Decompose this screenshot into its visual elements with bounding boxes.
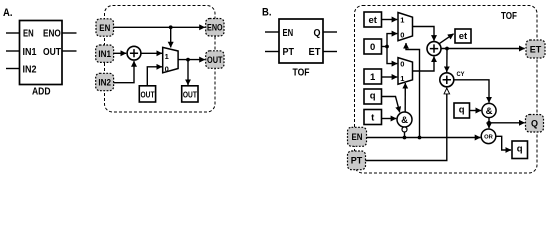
- junction EN/AND1: [403, 136, 407, 140]
- store box q bottom: [512, 141, 528, 159]
- mux1: [398, 13, 413, 41]
- OR circle: [481, 129, 496, 144]
- svg-text:PT: PT: [351, 156, 363, 167]
- svg-text:&: &: [486, 106, 493, 117]
- wire mux1 out to adder1 top: [413, 27, 435, 41]
- svg-text:ET: ET: [530, 44, 542, 55]
- wire AND1 out up to mux2 select: [404, 83, 406, 112]
- wire 0 down to mux2 input 0: [387, 47, 397, 64]
- wire q to AND2: [470, 110, 482, 112]
- dashed container box B: [355, 6, 538, 174]
- store box et right: [455, 29, 471, 43]
- wire t to AND1: [382, 118, 397, 120]
- wire stub OUT: [62, 50, 77, 52]
- wire IN2 to adder: [114, 61, 134, 83]
- svg-text:0: 0: [370, 42, 375, 53]
- node EN (input box B): [348, 127, 367, 146]
- svg-text:IN2: IN2: [98, 78, 111, 89]
- wire stub IN2: [6, 68, 20, 70]
- wire et to mux1 input 1: [382, 19, 398, 21]
- svg-text:Q: Q: [531, 119, 538, 130]
- svg-text:OR: OR: [484, 135, 494, 141]
- wire AND2 out down to OR: [488, 118, 490, 129]
- var box t left: [364, 110, 382, 125]
- svg-text:0: 0: [400, 31, 404, 40]
- dashed container box A: [105, 6, 216, 113]
- svg-text:&: &: [401, 115, 408, 126]
- node PT (input box B): [348, 151, 366, 170]
- svg-text:ET: ET: [309, 47, 321, 58]
- svg-text:CY: CY: [457, 72, 465, 78]
- junction EN/mux1 select: [418, 136, 422, 140]
- wire stub EN: [6, 32, 20, 34]
- svg-text:q: q: [517, 144, 523, 155]
- svg-text:PT: PT: [283, 47, 295, 58]
- adder2 circle: [440, 73, 454, 87]
- wire select to mux A: [170, 27, 172, 47]
- svg-text:B.: B.: [262, 7, 272, 19]
- wire q to AND1: [382, 97, 400, 113]
- node Q (output box): [526, 115, 544, 133]
- const box 0: [364, 39, 382, 54]
- svg-text:0: 0: [400, 60, 404, 69]
- svg-text:OUT: OUT: [183, 90, 197, 99]
- wire 0 to junction: [382, 46, 388, 48]
- node ENO (output box): [206, 19, 224, 37]
- mux2: [398, 58, 413, 85]
- var box q middle: [454, 103, 470, 118]
- wire stub ENO: [62, 32, 77, 34]
- AND1 inversion bubble: [402, 127, 407, 132]
- svg-text:IN1: IN1: [98, 49, 111, 60]
- svg-text:ENO: ENO: [207, 23, 223, 34]
- junction on mux out wire: [186, 58, 190, 62]
- wire stub ET: [323, 51, 337, 53]
- wire adder to mux 1 input: [141, 52, 162, 54]
- wire adder2 out to AND2 top: [454, 80, 489, 103]
- mux A: [163, 47, 178, 73]
- wire stub IN1: [6, 50, 20, 52]
- svg-text:IN2: IN2: [23, 64, 37, 75]
- svg-text:1: 1: [400, 15, 404, 24]
- svg-text:OUT: OUT: [207, 55, 223, 66]
- svg-text:EN: EN: [352, 132, 363, 143]
- svg-text:ENO: ENO: [43, 29, 61, 40]
- svg-text:et: et: [368, 15, 377, 26]
- node IN2 (input box): [96, 73, 114, 90]
- svg-text:TOF: TOF: [501, 11, 517, 22]
- wire junction down to adder2: [446, 49, 448, 73]
- svg-text:1: 1: [165, 52, 169, 61]
- node IN1 (input box): [96, 45, 114, 62]
- wire stub Q: [323, 31, 337, 33]
- svg-text:Q: Q: [314, 28, 321, 39]
- svg-text:1: 1: [400, 74, 404, 83]
- storage box OUT right: [182, 86, 198, 102]
- wire stub EN: [265, 31, 279, 33]
- node OUT (output box): [206, 51, 224, 69]
- junction of 0 wire: [385, 45, 389, 49]
- svg-text:0: 0: [165, 65, 169, 74]
- wire bubble down to EN wire: [404, 132, 406, 138]
- wire node to Q: [489, 122, 525, 124]
- wire 1 to mux2 input 1: [382, 76, 398, 78]
- svg-text:IN1: IN1: [23, 47, 37, 58]
- AND1 circle: [397, 112, 412, 127]
- svg-text:EN: EN: [23, 29, 34, 40]
- node EN (input box): [96, 19, 114, 36]
- svg-text:1: 1: [370, 72, 376, 83]
- junction on EN wire: [169, 25, 173, 29]
- wire EN long to OR: [367, 137, 481, 139]
- wire adder1 out to ET: [441, 48, 525, 50]
- wire stub PT: [265, 51, 279, 53]
- svg-text:et: et: [459, 31, 468, 42]
- wire mux A output to OUT: [178, 59, 205, 61]
- svg-text:TOF: TOF: [293, 67, 310, 78]
- wire down to OUT store: [187, 60, 189, 85]
- svg-text:ADD: ADD: [32, 87, 51, 98]
- const box 1: [364, 69, 382, 84]
- TOF block outer rect: [279, 19, 323, 63]
- adder circle A: [127, 46, 141, 60]
- var box q left: [364, 89, 382, 104]
- var box et left: [364, 12, 382, 27]
- svg-text:A.: A.: [3, 7, 13, 19]
- ADD block outer rect: [20, 21, 63, 85]
- svg-text:EN: EN: [99, 23, 110, 34]
- wire OUT old value to mux 0 input: [147, 67, 162, 86]
- svg-text:q: q: [459, 105, 465, 116]
- wire EN up to mux1 select: [406, 43, 420, 138]
- wire OR out to q store: [496, 136, 511, 150]
- junction AND2/OR node: [487, 121, 491, 125]
- svg-text:EN: EN: [283, 28, 294, 39]
- svg-text:OUT: OUT: [43, 47, 61, 58]
- junction adder1 out: [445, 47, 449, 51]
- node ET (output box): [526, 40, 545, 58]
- AND2 circle: [482, 103, 496, 117]
- adder1 circle: [427, 42, 441, 56]
- wire IN1 to adder: [114, 52, 127, 54]
- wire 0 up to mux1 input 0: [387, 34, 397, 47]
- wire PT to adder2 bottom (open arrow): [366, 88, 447, 161]
- svg-text:OUT: OUT: [141, 90, 155, 99]
- wire diagonal adder1 to et store: [439, 34, 454, 44]
- wire EN to ENO: [114, 26, 205, 28]
- storage box OUT left: [139, 86, 155, 102]
- wire mux2 out to adder1 bottom: [413, 56, 435, 71]
- svg-text:q: q: [370, 91, 376, 102]
